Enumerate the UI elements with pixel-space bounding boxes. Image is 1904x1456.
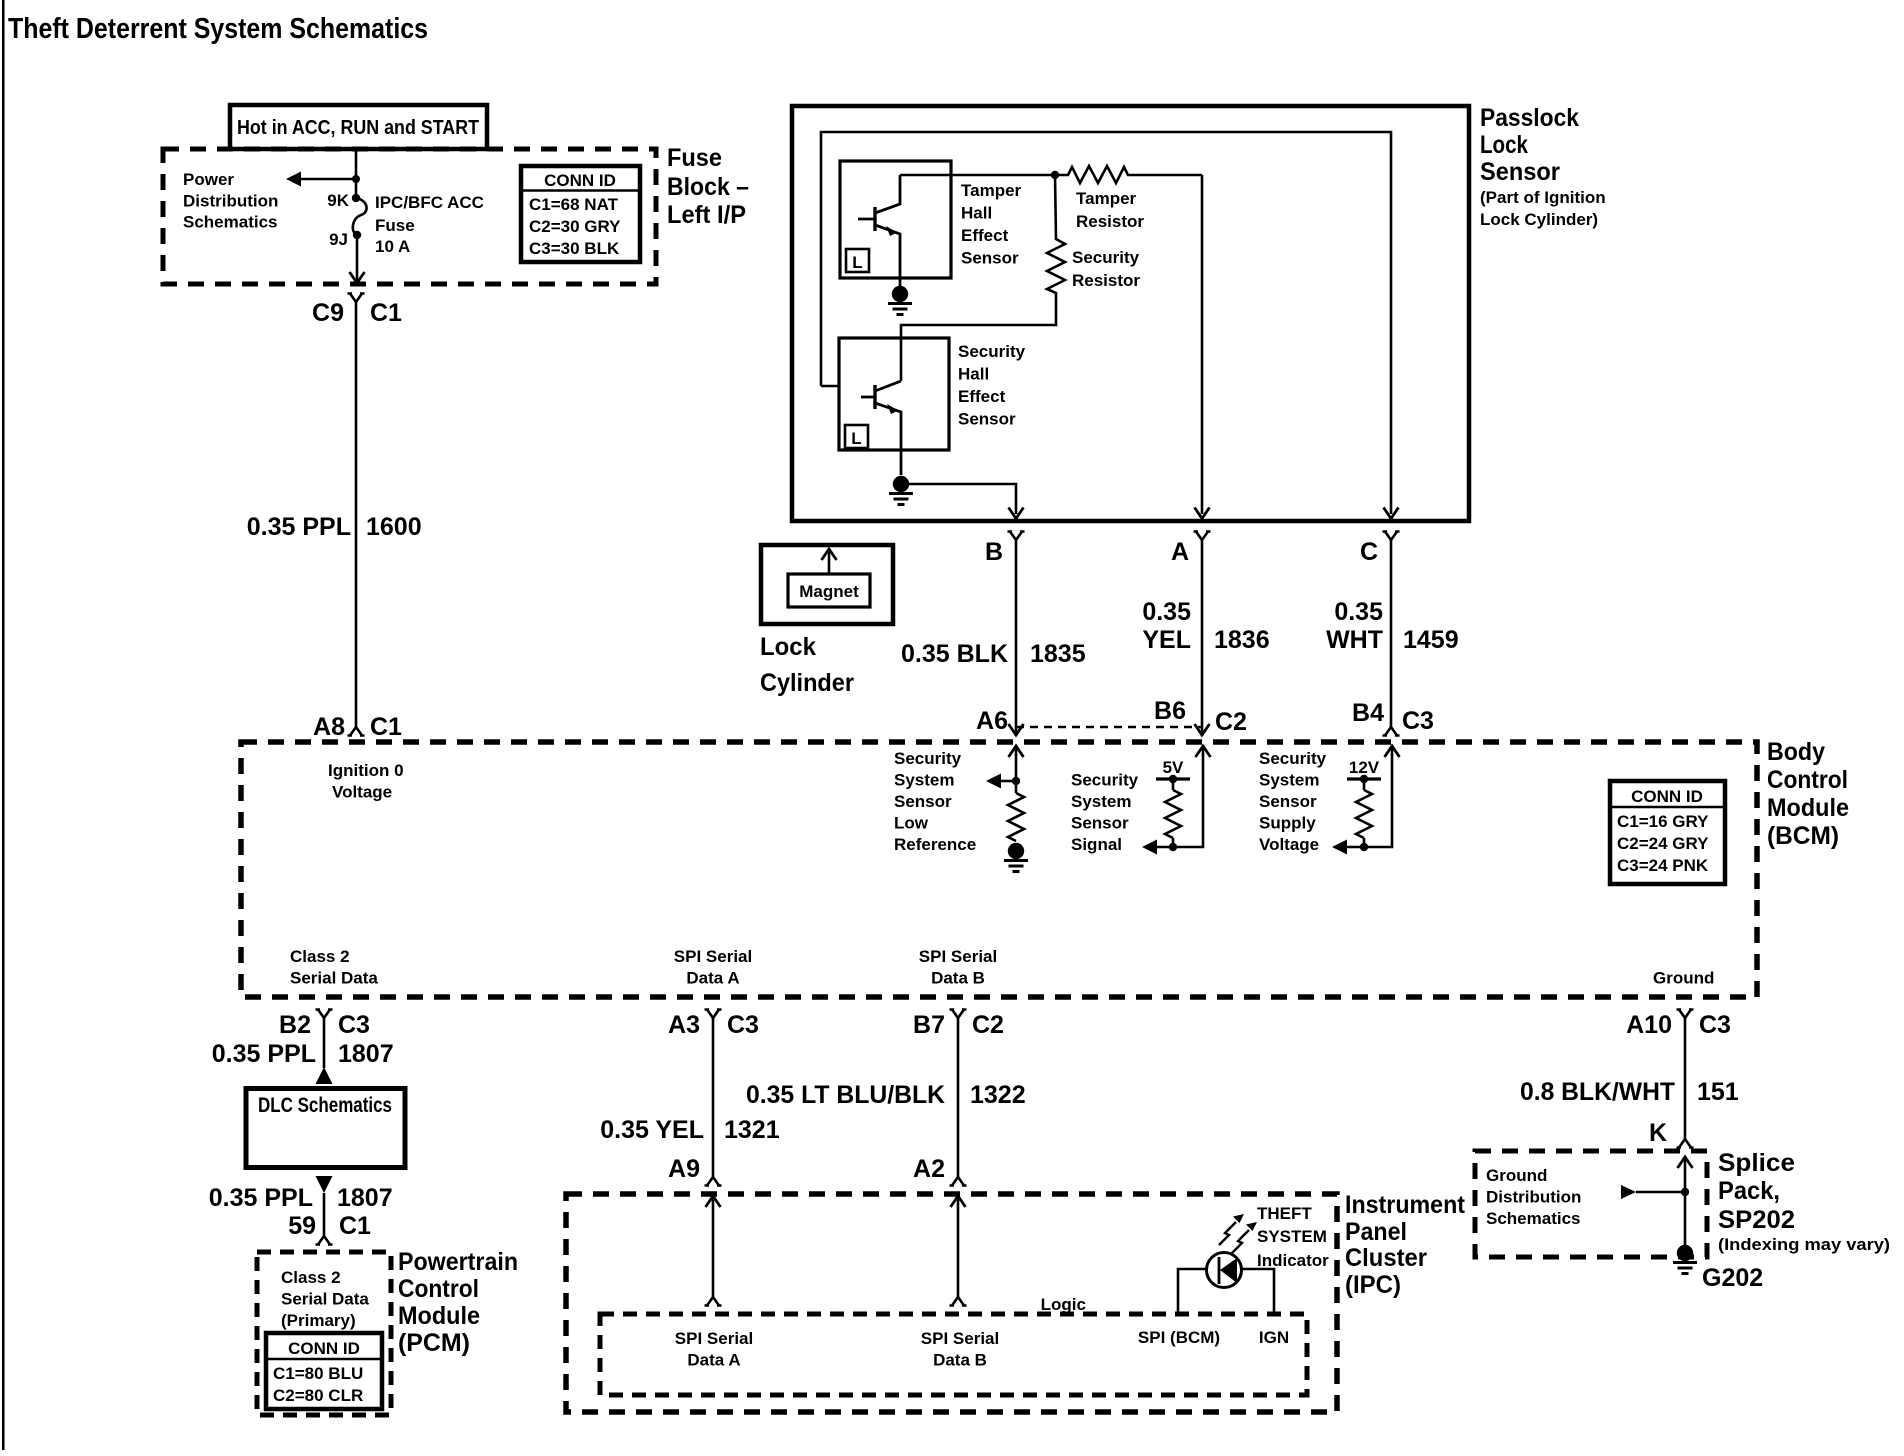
svg-text:Security: Security xyxy=(1259,749,1327,768)
svg-text:1807: 1807 xyxy=(338,1040,394,1068)
ground (tamper sensor) xyxy=(888,286,912,315)
svg-text:C2=24 GRY: C2=24 GRY xyxy=(1617,834,1709,853)
svg-text:0.35 YEL: 0.35 YEL xyxy=(600,1116,704,1144)
svg-text:Sensor: Sensor xyxy=(894,792,952,811)
ground G202 xyxy=(1673,1245,1697,1274)
svg-text:Low: Low xyxy=(894,814,929,833)
svg-text:C3: C3 xyxy=(727,1011,759,1039)
svg-text:1836: 1836 xyxy=(1214,626,1270,654)
svg-text:Security: Security xyxy=(1072,248,1140,267)
svg-text:Security: Security xyxy=(958,342,1026,361)
svg-text:SPI (BCM): SPI (BCM) xyxy=(1138,1328,1220,1347)
svg-text:Left I/P: Left I/P xyxy=(667,201,746,229)
connector A6 at BCM xyxy=(1009,724,1024,735)
svg-text:System: System xyxy=(1071,792,1131,811)
resistor: Security Resistor (vertical) xyxy=(901,175,1065,381)
svg-text:SPI Serial: SPI Serial xyxy=(921,1329,999,1348)
svg-text:Resistor: Resistor xyxy=(1076,212,1144,231)
svg-text:IGN: IGN xyxy=(1259,1328,1289,1347)
svg-text:B2: B2 xyxy=(279,1011,311,1039)
svg-text:C3: C3 xyxy=(1699,1011,1731,1039)
svg-text:System: System xyxy=(1259,771,1319,790)
fuse block dashed box (Fuse Block - Left I/P) xyxy=(163,149,656,284)
svg-text:C1: C1 xyxy=(370,713,402,741)
terminal C connector xyxy=(1383,532,1400,541)
terminal B connector xyxy=(1008,532,1025,541)
reference arrow from Ground Distribution xyxy=(1621,1185,1636,1199)
svg-text:1322: 1322 xyxy=(970,1081,1026,1109)
svg-text:Ground: Ground xyxy=(1653,969,1714,988)
svg-text:0.35 PPL: 0.35 PPL xyxy=(209,1184,313,1212)
svg-text:C2=80 CLR: C2=80 CLR xyxy=(273,1386,363,1405)
svg-text:Sensor: Sensor xyxy=(1259,792,1317,811)
transistor Q1 (tamper) xyxy=(858,175,900,288)
svg-text:C1=80 BLU: C1=80 BLU xyxy=(273,1364,363,1383)
svg-text:System: System xyxy=(894,771,954,790)
reference arrow out of DLC box xyxy=(316,1176,333,1193)
svg-text:C: C xyxy=(1360,538,1378,566)
svg-text:59: 59 xyxy=(288,1212,316,1240)
svg-text:1459: 1459 xyxy=(1403,626,1459,654)
svg-text:(Part of Ignition: (Part of Ignition xyxy=(1480,188,1606,207)
svg-text:Ignition 0: Ignition 0 xyxy=(328,761,404,780)
wire B 0.35 BLK 1835 xyxy=(1015,540,1018,736)
svg-text:B: B xyxy=(985,538,1003,566)
svg-text:Voltage: Voltage xyxy=(1259,835,1319,854)
svg-text:Distribution: Distribution xyxy=(183,192,278,211)
junction dot at branch xyxy=(352,175,360,183)
DLC Schematics box xyxy=(246,1089,405,1168)
svg-text:WHT: WHT xyxy=(1326,626,1383,654)
wire from fuse to connector C9 xyxy=(356,235,359,281)
svg-text:Passlock: Passlock xyxy=(1480,104,1579,132)
Passlock Lock Sensor outer box xyxy=(792,106,1469,521)
connector B7 / C2 below BCM xyxy=(950,1010,967,1019)
BCM sensor signal branch with 5V pull-up xyxy=(1142,746,1211,855)
svg-text:Data A: Data A xyxy=(687,1351,740,1370)
svg-text:Supply: Supply xyxy=(1259,814,1316,833)
svg-text:Block –: Block – xyxy=(667,173,749,201)
internal dashed link A6 to C2 xyxy=(1016,726,1202,729)
svg-text:Hot in ACC, RUN and START: Hot in ACC, RUN and START xyxy=(237,117,479,139)
svg-text:K: K xyxy=(1649,1119,1667,1147)
tamper hall effect sensor box xyxy=(840,161,951,278)
connector C9 / C1 xyxy=(348,294,365,303)
wire: collector rail to junction xyxy=(900,174,1055,177)
CONN ID table (PCM) xyxy=(266,1333,382,1409)
svg-text:(BCM): (BCM) xyxy=(1767,822,1839,850)
svg-text:Data A: Data A xyxy=(686,969,739,988)
svg-text:DLC Schematics: DLC Schematics xyxy=(258,1094,392,1117)
svg-text:C2=30 GRY: C2=30 GRY xyxy=(529,217,621,236)
svg-text:Pack,: Pack, xyxy=(1718,1177,1780,1205)
svg-text:A2: A2 xyxy=(913,1155,945,1183)
wire A inside sensor xyxy=(1201,175,1204,514)
svg-text:Class 2: Class 2 xyxy=(281,1268,341,1287)
svg-text:Control: Control xyxy=(398,1275,479,1303)
Hot in ACC, RUN and START box xyxy=(230,105,487,149)
svg-text:Lock Cylinder): Lock Cylinder) xyxy=(1480,210,1598,229)
svg-text:C3: C3 xyxy=(338,1011,370,1039)
svg-text:Distribution: Distribution xyxy=(1486,1188,1581,1207)
ground (security sensor) xyxy=(889,476,913,505)
svg-text:Schematics: Schematics xyxy=(1486,1209,1581,1228)
svg-text:C2: C2 xyxy=(972,1011,1004,1039)
svg-text:Cylinder: Cylinder xyxy=(760,669,854,697)
wire 0.35 PPL 1600 xyxy=(355,302,358,727)
svg-text:Lock: Lock xyxy=(760,633,816,661)
svg-text:A8: A8 xyxy=(313,713,345,741)
svg-text:IPC/BFC ACC: IPC/BFC ACC xyxy=(375,193,484,212)
svg-text:1807: 1807 xyxy=(337,1184,393,1212)
connector B2 / C3 below BCM xyxy=(316,1010,333,1019)
svg-text:YEL: YEL xyxy=(1142,626,1191,654)
svg-text:Power: Power xyxy=(183,170,234,189)
svg-text:SPI Serial: SPI Serial xyxy=(919,947,997,966)
svg-text:0.8 BLK/WHT: 0.8 BLK/WHT xyxy=(1520,1078,1675,1106)
svg-text:Security: Security xyxy=(894,749,962,768)
Instrument Panel Cluster dashed box xyxy=(566,1194,1337,1412)
svg-text:A9: A9 xyxy=(668,1155,700,1183)
wire SPI Serial Data B into logic xyxy=(951,1196,966,1207)
Splice Pack dashed box xyxy=(1475,1151,1707,1257)
svg-text:C1=16 GRY: C1=16 GRY xyxy=(1617,812,1709,831)
svg-text:Module: Module xyxy=(398,1302,480,1330)
resistor: Tamper Resistor (horizontal) xyxy=(1055,166,1202,183)
svg-text:Signal: Signal xyxy=(1071,835,1122,854)
svg-text:Schematics: Schematics xyxy=(183,213,278,232)
wire LED to IGN xyxy=(1242,1269,1275,1314)
wire into splice pack xyxy=(1678,1157,1693,1168)
connector B6 / C2 at BCM xyxy=(1195,724,1210,735)
svg-text:SYSTEM: SYSTEM xyxy=(1257,1227,1327,1246)
svg-text:(Primary): (Primary) xyxy=(281,1311,356,1330)
svg-text:Tamper: Tamper xyxy=(961,181,1022,200)
wire: branch to Power Distribution Schematics with arrow xyxy=(298,178,356,181)
svg-text:Security: Security xyxy=(1071,771,1139,790)
wire 0.8 BLK/WHT 151 xyxy=(1684,1018,1687,1139)
svg-text:Instrument: Instrument xyxy=(1345,1191,1466,1219)
wire 0.35 PPL 1807 (to DLC) xyxy=(323,1018,326,1068)
svg-text:12V: 12V xyxy=(1349,758,1380,777)
svg-text:Reference: Reference xyxy=(894,835,976,854)
svg-text:Magnet: Magnet xyxy=(799,582,859,601)
fuse F1 IPC/BFC ACC 10A xyxy=(327,191,484,256)
svg-text:L: L xyxy=(852,253,862,272)
connector A10 / C3 below BCM xyxy=(1677,1010,1694,1019)
svg-text:5V: 5V xyxy=(1163,758,1184,777)
svg-text:151: 151 xyxy=(1697,1078,1739,1106)
svg-text:Powertrain: Powertrain xyxy=(398,1248,518,1276)
svg-text:SPI Serial: SPI Serial xyxy=(674,947,752,966)
svg-text:B6: B6 xyxy=(1154,697,1186,725)
reference arrow into DLC Schematics xyxy=(316,1067,333,1084)
svg-text:Cluster: Cluster xyxy=(1345,1244,1427,1272)
svg-text:C3=24 PNK: C3=24 PNK xyxy=(1617,856,1709,875)
node: splice junction xyxy=(1681,1188,1689,1196)
svg-text:C2: C2 xyxy=(1215,708,1247,736)
svg-text:0.35: 0.35 xyxy=(1334,598,1383,626)
svg-text:A6: A6 xyxy=(976,707,1008,735)
svg-text:Effect: Effect xyxy=(961,226,1009,245)
svg-text:B4: B4 xyxy=(1352,699,1384,727)
[L] mark Q2 xyxy=(845,425,868,448)
svg-text:9K: 9K xyxy=(327,191,349,210)
wire 0.35 PPL 1807 (to PCM) xyxy=(323,1193,326,1236)
svg-text:Indicator: Indicator xyxy=(1257,1251,1329,1270)
svg-text:Theft Deterrent System Schemat: Theft Deterrent System Schematics xyxy=(8,13,428,45)
svg-text:Sensor: Sensor xyxy=(1071,814,1129,833)
CONN ID table (BCM) xyxy=(1610,781,1725,884)
node: junction of tamper/security resistors xyxy=(1051,171,1059,179)
[L] mark Q1 xyxy=(846,249,869,272)
svg-text:CONN ID: CONN ID xyxy=(288,1339,360,1358)
svg-text:Serial Data: Serial Data xyxy=(290,969,378,988)
svg-text:A: A xyxy=(1171,538,1189,566)
connector 59 / C1 at PCM xyxy=(316,1236,333,1245)
svg-text:A10: A10 xyxy=(1626,1011,1672,1039)
svg-text:C3=30 BLK: C3=30 BLK xyxy=(529,239,620,258)
svg-text:SP202: SP202 xyxy=(1718,1206,1795,1234)
svg-text:B7: B7 xyxy=(913,1011,945,1039)
svg-text:0.35: 0.35 xyxy=(1142,598,1191,626)
security hall effect sensor box xyxy=(839,338,949,450)
svg-text:CONN ID: CONN ID xyxy=(1631,787,1703,806)
LED: THEFT SYSTEM Indicator xyxy=(1207,1214,1258,1288)
svg-text:THEFT: THEFT xyxy=(1257,1204,1312,1223)
svg-text:Body: Body xyxy=(1767,738,1825,766)
svg-text:Logic: Logic xyxy=(1041,1295,1086,1314)
svg-text:CONN ID: CONN ID xyxy=(544,171,616,190)
svg-text:(Indexing may vary): (Indexing may vary) xyxy=(1718,1235,1890,1254)
svg-text:Fuse: Fuse xyxy=(667,144,722,172)
BCM low reference branch xyxy=(986,746,1028,872)
transistor Q2 (security) xyxy=(861,381,901,475)
svg-text:Panel: Panel xyxy=(1345,1218,1407,1246)
wire B run from ground to terminal xyxy=(901,484,1016,514)
svg-text:Splice: Splice xyxy=(1718,1149,1795,1177)
wire: inner frame polyline (top rail to C, left drop to security base) xyxy=(821,132,1391,514)
svg-text:Sensor: Sensor xyxy=(958,410,1016,429)
svg-text:1835: 1835 xyxy=(1030,640,1086,668)
CONN ID table (Fuse Block) xyxy=(521,166,640,262)
svg-text:0.35 PPL: 0.35 PPL xyxy=(212,1040,316,1068)
svg-text:0.35 LT BLU/BLK: 0.35 LT BLU/BLK xyxy=(746,1081,945,1109)
svg-text:(PCM): (PCM) xyxy=(398,1329,470,1357)
connector A2 at IPC xyxy=(950,1177,967,1186)
svg-text:Tamper: Tamper xyxy=(1076,189,1137,208)
BCM sensor supply branch with 12V xyxy=(1332,746,1400,855)
svg-text:C3: C3 xyxy=(1402,707,1434,735)
connector A8 / C1 at BCM xyxy=(348,727,365,736)
svg-text:Lock: Lock xyxy=(1480,131,1528,159)
wire SPI Serial Data A into logic xyxy=(706,1196,721,1207)
wire C 0.35 WHT 1459 xyxy=(1390,540,1393,727)
svg-text:Serial Data: Serial Data xyxy=(281,1290,369,1309)
svg-text:Control: Control xyxy=(1767,766,1848,794)
svg-text:Ground: Ground xyxy=(1486,1166,1547,1185)
terminal arrows at sensor box bottom xyxy=(1009,508,1024,519)
svg-text:L: L xyxy=(851,429,861,448)
svg-text:10 A: 10 A xyxy=(375,237,410,256)
svg-text:Data B: Data B xyxy=(933,1351,987,1370)
svg-text:Hall: Hall xyxy=(961,204,992,223)
svg-text:A3: A3 xyxy=(668,1011,700,1039)
svg-text:Effect: Effect xyxy=(958,387,1006,406)
wire 0.35 LT BLU/BLK 1322 xyxy=(957,1018,960,1177)
Logic dashed box xyxy=(600,1314,1307,1395)
svg-text:1321: 1321 xyxy=(724,1116,780,1144)
wire from Hot feed down to fuse xyxy=(355,149,358,196)
wire A 0.35 YEL 1836 xyxy=(1201,540,1204,736)
connector A9 at IPC xyxy=(705,1177,722,1186)
wire LED to SPI (BCM) xyxy=(1178,1269,1207,1314)
page left border xyxy=(2,0,5,1450)
svg-text:Module: Module xyxy=(1767,794,1849,822)
svg-text:Resistor: Resistor xyxy=(1072,271,1140,290)
connector A3 / C3 below BCM xyxy=(705,1010,722,1019)
terminal A connector xyxy=(1194,532,1211,541)
svg-text:G202: G202 xyxy=(1702,1264,1763,1292)
svg-text:C1: C1 xyxy=(339,1212,371,1240)
svg-text:Sensor: Sensor xyxy=(961,249,1019,268)
Body Control Module dashed box xyxy=(241,742,1757,997)
svg-text:C1: C1 xyxy=(370,299,402,327)
svg-text:0.35 PPL: 0.35 PPL xyxy=(247,513,351,541)
svg-text:SPI Serial: SPI Serial xyxy=(675,1329,753,1348)
wire 0.35 YEL 1321 xyxy=(712,1018,715,1177)
svg-text:1600: 1600 xyxy=(366,513,422,541)
Magnet box (lock cylinder) xyxy=(761,545,893,624)
svg-text:C1=68 NAT: C1=68 NAT xyxy=(529,195,619,214)
connector B4 / C3 at BCM xyxy=(1383,727,1400,736)
svg-text:C9: C9 xyxy=(312,299,344,327)
svg-text:0.35 BLK: 0.35 BLK xyxy=(901,640,1008,668)
svg-text:Voltage: Voltage xyxy=(332,783,392,802)
svg-text:Sensor: Sensor xyxy=(1480,158,1560,186)
svg-text:Class 2: Class 2 xyxy=(290,947,350,966)
svg-text:Hall: Hall xyxy=(958,365,989,384)
svg-text:Data B: Data B xyxy=(931,969,985,988)
svg-text:Fuse: Fuse xyxy=(375,216,415,235)
svg-text:9J: 9J xyxy=(329,230,348,249)
svg-text:(IPC): (IPC) xyxy=(1345,1271,1401,1299)
Powertrain Control Module dashed box xyxy=(257,1252,391,1415)
